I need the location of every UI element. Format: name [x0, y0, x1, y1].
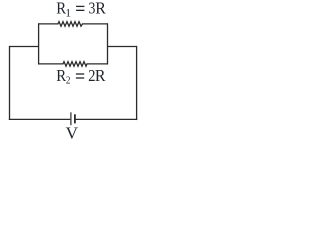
wire bottom left	[9, 118, 70, 120]
wire bottom right	[76, 118, 138, 120]
wire right vertical	[136, 46, 138, 120]
resistor R1	[39, 22, 108, 27]
battery V	[71, 112, 75, 125]
wire right mid	[108, 46, 137, 48]
svg-text:V: V	[66, 124, 79, 143]
svg-text:R22R: R22R	[56, 66, 105, 86]
wire left mid	[10, 46, 39, 48]
wire left branch vertical	[38, 23, 40, 64]
wire right branch vertical	[107, 23, 109, 64]
wire left vertical	[9, 46, 11, 120]
resistor R2	[39, 62, 108, 67]
label R2 = 2R	[56, 66, 105, 86]
label R1 = 3R	[56, 0, 106, 20]
